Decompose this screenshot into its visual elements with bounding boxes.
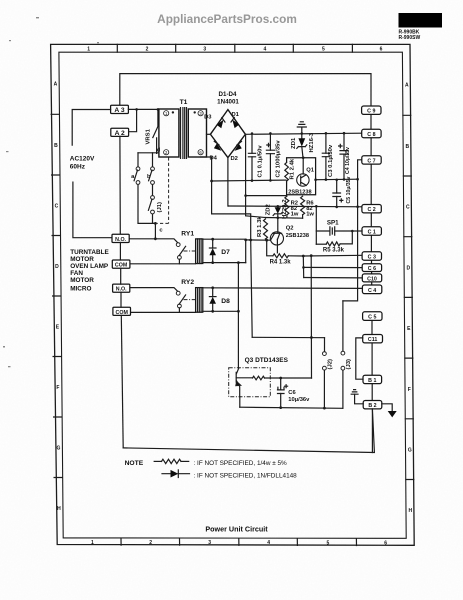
polarity plus C4 — [339, 144, 342, 147]
diode D2 — [234, 141, 241, 151]
svg-text:5: 5 — [322, 47, 325, 53]
node SP1 top — [315, 205, 318, 208]
svg-text:C 9: C 9 — [367, 109, 375, 115]
node ZD2 bottom — [277, 216, 280, 219]
svg-text:B: B — [54, 143, 58, 149]
linkage RY1 — [184, 250, 196, 252]
wire V1 bridge minus branch down — [212, 157, 251, 240]
node R4 C3 row — [302, 255, 305, 258]
svg-text:C4 10µ/35v: C4 10µ/35v — [345, 147, 351, 174]
svg-text:3: 3 — [208, 540, 211, 546]
wire left chain N.O.2 to COM2 — [120, 292, 122, 307]
label HZ16-3 — [309, 132, 315, 152]
outer border frame — [51, 44, 415, 545]
svg-text:HZ16-3: HZ16-3 — [309, 132, 315, 152]
label C1 value — [258, 145, 264, 178]
border zone numbers bottom — [91, 540, 387, 547]
polarity plus C6 — [285, 385, 288, 388]
wire RY2 top row to C4 — [203, 287, 362, 290]
node C6 gnd — [279, 406, 282, 409]
node gnd C2 row join — [356, 205, 359, 208]
svg-text:Q2: Q2 — [286, 226, 294, 232]
wire R4 to C3 terminal row — [288, 254, 362, 257]
node A2 jumper — [135, 108, 138, 111]
svg-text:6: 6 — [384, 540, 387, 546]
node D7 bottom — [211, 261, 214, 264]
ground arrow B2 right — [388, 411, 397, 417]
svg-text:2: 2 — [146, 47, 149, 53]
node D7 top — [211, 238, 214, 241]
label MICRO — [70, 286, 91, 293]
svg-text:G: G — [408, 448, 412, 454]
terminal C4 — [362, 285, 381, 294]
relay coil RY2 — [196, 288, 203, 313]
terminal C6 — [362, 264, 381, 272]
svg-text:1N4001: 1N4001 — [217, 98, 239, 105]
label D1 — [232, 112, 240, 118]
terminal A2 — [111, 128, 129, 137]
diode D7 — [209, 239, 216, 262]
load list label — [70, 249, 109, 284]
label a — [131, 174, 135, 180]
svg-text:RY2: RY2 — [181, 279, 194, 286]
wire left chain N.O.1 to COM1 — [119, 243, 121, 261]
rail A (DC minus mid rail) — [212, 179, 358, 181]
zener diode ZD2 — [273, 206, 282, 217]
model number black box — [399, 13, 443, 28]
svg-text:1: 1 — [87, 47, 90, 53]
svg-text:(J3): (J3) — [346, 359, 352, 370]
svg-text:D1: D1 — [232, 112, 240, 118]
label D4 — [210, 156, 218, 162]
terminal A3 — [111, 105, 129, 114]
svg-text:MOTOR: MOTOR — [70, 277, 94, 284]
label C3 value — [328, 144, 334, 177]
node C3 bottom — [325, 178, 328, 181]
node V-long top — [310, 254, 313, 257]
svg-text:4: 4 — [264, 47, 267, 53]
pin 1 primary top — [164, 111, 175, 117]
wire A3 row to transformer — [128, 108, 159, 110]
dashed jumper wire from pin 2 — [157, 157, 169, 223]
svg-text:5: 5 — [327, 540, 330, 546]
border zone letters right — [405, 83, 413, 515]
node relay return D8 row — [237, 310, 240, 313]
label C2 value — [276, 140, 282, 178]
label D8 — [221, 298, 230, 305]
wire bottom return to B2 — [123, 409, 374, 453]
svg-text:D8: D8 — [221, 298, 230, 305]
node C4 bottom — [343, 178, 346, 181]
svg-text:R3 1.3k: R3 1.3k — [257, 216, 263, 237]
svg-text:SP1: SP1 — [327, 220, 339, 227]
svg-text:C10: C10 — [367, 276, 377, 282]
svg-text:R5 3.3k: R5 3.3k — [323, 248, 345, 254]
switch a — [134, 153, 155, 224]
wire bridge bottom to C2 row — [227, 158, 229, 206]
svg-text:C2 1000µ/35v: C2 1000µ/35v — [276, 140, 282, 178]
node relay return tee — [237, 261, 240, 264]
wire COM1 row — [130, 263, 196, 265]
wire V-long vertical — [310, 256, 312, 379]
node C1 top — [251, 132, 254, 135]
node c junction — [154, 222, 157, 225]
label C6 — [288, 390, 296, 396]
wire N.O.1 row to switch — [129, 239, 178, 243]
svg-text:A: A — [54, 82, 58, 88]
svg-text:1: 1 — [91, 540, 94, 546]
svg-text:HZ29-2: HZ29-2 — [282, 199, 288, 219]
label AC120V 60Hz — [70, 156, 95, 171]
jumper switch J1 — [148, 196, 155, 224]
svg-text:F: F — [408, 387, 411, 393]
svg-text:C 2: C 2 — [367, 207, 375, 213]
svg-text:A 3: A 3 — [114, 107, 124, 114]
terminal C7 — [362, 156, 381, 165]
diode D3 — [217, 118, 226, 129]
node ZD2 top — [277, 205, 280, 208]
svg-text:2SB1238: 2SB1238 — [286, 233, 309, 239]
svg-text:COM: COM — [115, 263, 128, 269]
terminal COM 2 — [113, 307, 131, 316]
label C4 value — [345, 147, 351, 174]
svg-text:ZD1: ZD1 — [291, 137, 297, 149]
node C5 bottom — [335, 206, 338, 209]
node rail A at module edge — [314, 178, 317, 181]
label D3 — [204, 114, 212, 120]
capacitor C3 — [322, 133, 329, 179]
terminal COM 1 — [112, 260, 130, 269]
terminal B1 — [363, 375, 382, 384]
node C2 top — [269, 132, 272, 135]
header site watermark — [157, 12, 297, 26]
wire bottom gnd row — [240, 407, 343, 408]
relay coil RY1 — [196, 239, 203, 264]
wire U-loop horizontal 337 — [252, 336, 324, 338]
node Q2 row R4 — [265, 239, 268, 242]
node D8 bottom — [211, 310, 214, 313]
terminal C5 — [363, 312, 382, 321]
label b — [147, 174, 151, 180]
wire R4 branch down — [267, 240, 273, 256]
wire d row under primary — [138, 152, 159, 154]
svg-text:COM: COM — [116, 310, 129, 316]
right terminal column connector lines — [371, 114, 372, 453]
svg-text:C3 0.1µ/50v: C3 0.1µ/50v — [328, 144, 334, 177]
wire left chain COM1 to N.O.2 — [120, 268, 122, 284]
wire left chain COM2 to bottom — [121, 315, 123, 448]
bridge rectifier D1-D4 label — [217, 91, 239, 105]
node V3 branch — [244, 194, 247, 197]
svg-text:6: 6 — [380, 47, 383, 53]
svg-text:C6: C6 — [288, 390, 296, 396]
terminal C11 — [363, 335, 383, 344]
resistor R1 — [285, 163, 289, 182]
wire VRS1 bottom to d row (stub) — [156, 152, 158, 155]
svg-text:A: A — [405, 83, 409, 89]
svg-text:C 1: C 1 — [368, 230, 376, 236]
svg-text:C 7: C 7 — [367, 158, 375, 164]
svg-text:F: F — [56, 385, 59, 391]
transformer T1 secondary winding — [188, 109, 206, 157]
terminal C8 — [362, 129, 381, 138]
svg-text:D1-D4: D1-D4 — [219, 91, 237, 98]
border tick marks right — [403, 115, 414, 479]
svg-text:3: 3 — [203, 47, 206, 53]
svg-text:VRS1: VRS1 — [146, 128, 152, 144]
wire U-loop V2 down — [251, 240, 253, 337]
wire RY1 bottom row — [203, 262, 246, 264]
label R4 1.3k — [270, 259, 292, 265]
label ZD2 — [265, 203, 271, 215]
terminal C2 — [362, 205, 381, 214]
node U-loop V-long tee — [310, 336, 313, 339]
varistor VRS1 — [153, 109, 159, 152]
wire relay return to Q3 — [237, 263, 239, 368]
wire bridge plus to C8 rail — [245, 133, 361, 134]
node rail A end on V1 — [210, 180, 213, 183]
wire A2 jumper from A3 row — [129, 109, 137, 131]
label VRS1 — [146, 128, 152, 144]
note diode symbol — [162, 470, 190, 478]
label c — [159, 228, 163, 234]
wire secondary bottom stub to V1 — [201, 156, 212, 158]
relay RY1 switch — [176, 243, 185, 264]
svg-text:Q3 DTD143ES: Q3 DTD143ES — [245, 357, 289, 364]
zener diode ZD1 — [297, 134, 307, 158]
label R1 2.4k — [290, 158, 296, 179]
border zone letters left — [54, 82, 62, 513]
svg-text:B 1: B 1 — [368, 378, 376, 384]
title: Power Unit Circuit — [205, 525, 268, 534]
svg-text:10µ/36v: 10µ/36v — [288, 397, 310, 403]
terminal B2 — [363, 401, 382, 410]
svg-text:(J1): (J1) — [157, 202, 163, 213]
svg-text:R4 1.3k: R4 1.3k — [270, 259, 292, 265]
svg-text:b: b — [147, 174, 151, 180]
terminal C3 — [362, 252, 381, 261]
label D2 — [231, 156, 238, 162]
svg-text:MICRO: MICRO — [70, 286, 91, 293]
node C4 top — [343, 132, 346, 135]
terminal N.O. 1 — [112, 234, 129, 243]
node Q2 row left — [244, 239, 247, 242]
wire RY1 top row to corner — [203, 239, 246, 262]
terminal N.O. 2 — [113, 284, 130, 293]
wire Q3 emitter to gnd row — [239, 397, 241, 407]
terminal C1 — [362, 227, 381, 236]
svg-text:D7: D7 — [221, 249, 230, 256]
wire C1 terminal row — [352, 230, 362, 232]
digital transistor Q3 module box — [229, 368, 271, 397]
resistor R5 bottom branch — [316, 231, 352, 246]
svg-text:Q1: Q1 — [306, 168, 315, 174]
label SP1 — [327, 220, 339, 227]
label C5 value — [346, 176, 352, 203]
wire RY2 bottom row — [203, 310, 239, 312]
diode D4 — [214, 141, 221, 151]
note text — [125, 460, 298, 479]
node C6 top — [279, 377, 282, 380]
wire C6 row — [304, 266, 362, 268]
label C6 value — [288, 397, 310, 403]
svg-text:: IF NOT SPECIFIED, 1/4w ± 5%: : IF NOT SPECIFIED, 1/4w ± 5% — [194, 460, 288, 467]
polarity plus C2 — [267, 143, 270, 146]
svg-text:MOTOR: MOTOR — [70, 256, 94, 263]
label Q3 DTD143ES — [245, 357, 289, 364]
wire c junction down to N.O. row — [154, 223, 156, 238]
label Q2 — [286, 226, 294, 232]
node row base wire — [265, 217, 302, 220]
resistor R2 — [285, 196, 289, 217]
node C3 top — [325, 132, 328, 135]
svg-text:: IF NOT SPECIFIED, 1N/FDLL41: : IF NOT SPECIFIED, 1N/FDLL4148 — [194, 472, 298, 479]
svg-text:D: D — [55, 264, 59, 270]
svg-text:B: B — [405, 144, 409, 150]
svg-text:AC120V: AC120V — [70, 156, 95, 163]
border tick marks top — [117, 44, 352, 52]
node C2 bottom — [269, 179, 272, 182]
stray scan specks left margin — [3, 17, 99, 367]
svg-text:1w: 1w — [306, 212, 314, 218]
transistor Q2 — [270, 218, 283, 253]
wire ZD1 into module — [302, 158, 304, 174]
linkage RY2 — [184, 299, 196, 301]
svg-text:FAN: FAN — [70, 270, 83, 277]
node gnd rail A join — [356, 178, 359, 181]
regulator module box Q1 — [287, 158, 316, 195]
border tick marks left — [51, 114, 62, 477]
svg-text:R1 2.4k: R1 2.4k — [290, 158, 296, 179]
node D8 top — [211, 286, 214, 289]
label R2 82 1w — [291, 200, 299, 217]
inner border frame — [59, 52, 406, 538]
svg-text:4: 4 — [267, 540, 270, 546]
node ZD1 top — [301, 132, 304, 135]
node C5 top — [335, 179, 338, 182]
surge absorber SP1 loop left rail — [315, 206, 317, 244]
label R3 1.3k — [257, 216, 263, 237]
capacitor C2 — [266, 133, 274, 180]
label D7 — [221, 249, 230, 256]
wire A2 down to terminal chain — [119, 136, 121, 234]
svg-text:(J2): (J2) — [328, 359, 334, 370]
svg-text:OVEN LAMP: OVEN LAMP — [70, 263, 109, 270]
pin 2 primary bottom — [164, 150, 169, 156]
svg-text:C 6: C 6 — [368, 266, 376, 272]
wire B2 right ground — [382, 404, 392, 411]
terminal C9 — [362, 106, 381, 115]
border zone numbers top — [87, 47, 382, 53]
svg-text:C 3: C 3 — [368, 255, 376, 261]
svg-text:H: H — [57, 506, 61, 512]
capacitor C4 — [340, 133, 348, 179]
wire V3 branch to module — [246, 195, 287, 197]
svg-text:C 8: C 8 — [367, 132, 375, 138]
svg-text:Power Unit Circuit: Power Unit Circuit — [205, 525, 268, 534]
svg-text:2SB1238: 2SB1238 — [288, 189, 311, 195]
label ZD1 — [291, 137, 297, 149]
wire B2 left chassis — [355, 394, 364, 404]
svg-text:TURNTABLE: TURNTABLE — [70, 249, 109, 256]
transformer T1 label — [180, 99, 188, 106]
svg-text:C11: C11 — [368, 337, 377, 343]
capacitor C5 — [333, 180, 341, 207]
wire C2 row — [228, 205, 364, 208]
wire V3 bridge output drop — [246, 134, 266, 217]
label HZ29-2 — [282, 199, 288, 219]
resistor R4 — [273, 254, 288, 258]
svg-text:A 2: A 2 — [115, 130, 125, 137]
node VRS1 top — [157, 108, 160, 111]
node c on N.O. row — [154, 237, 157, 240]
note resistor symbol — [154, 459, 189, 463]
label d — [157, 148, 161, 154]
wire A3 left to AC stub — [72, 110, 110, 146]
svg-text:ZD2: ZD2 — [265, 203, 271, 215]
label (J3) — [346, 359, 352, 370]
transistor Q3 — [236, 368, 253, 397]
relay RY2 label — [181, 279, 194, 286]
svg-text:D: D — [406, 265, 410, 271]
svg-text:D2: D2 — [231, 156, 238, 162]
wire N.O.2 row to switch — [130, 288, 178, 292]
capacitor symbol SP1 — [316, 227, 352, 235]
svg-text:2: 2 — [149, 540, 152, 546]
pin 3 secondary top — [194, 111, 204, 117]
svg-text:1w: 1w — [291, 212, 299, 218]
svg-text:G: G — [56, 446, 60, 452]
label Q2 part 2SB1238 — [286, 233, 309, 239]
label (J2) — [328, 359, 334, 370]
relay RY2 switch — [176, 291, 185, 312]
svg-text:D3: D3 — [204, 114, 212, 120]
border tick marks bottom — [121, 539, 357, 546]
capacitor C1 — [248, 134, 255, 181]
label Q1 part 2SB1238 — [288, 189, 311, 195]
svg-text:H: H — [408, 508, 412, 514]
svg-text:C: C — [406, 205, 410, 211]
model numbers text — [399, 29, 421, 41]
node ZD1 module top — [302, 156, 305, 159]
wire AC stub 2 to N.O. terminal — [73, 182, 112, 238]
resistor R6 — [301, 196, 305, 218]
chassis symbol above rail — [297, 122, 306, 134]
wire COM2 row — [131, 311, 196, 313]
svg-text:60Hz: 60Hz — [70, 163, 86, 170]
label Q1 — [306, 168, 315, 174]
svg-text:C5 10µ/35v: C5 10µ/35v — [346, 176, 352, 203]
wire C6 C10 drop — [302, 256, 304, 278]
terminal C10 — [362, 274, 381, 282]
bracket C11 to B1 — [356, 338, 363, 379]
jumper J2 — [323, 338, 327, 408]
svg-text:T1: T1 — [180, 99, 188, 106]
svg-text:C 4: C 4 — [368, 288, 376, 294]
wire C7 gnd vertical — [343, 160, 362, 301]
bridge rectifier diamond — [210, 110, 245, 158]
node Q2 row V2 — [249, 239, 252, 242]
diode D1 — [231, 117, 239, 128]
diode D8 — [209, 288, 216, 312]
transformer T1 primary winding — [159, 109, 179, 157]
svg-text:C: C — [55, 204, 59, 210]
svg-text:C1 0.1µ/50v: C1 0.1µ/50v — [258, 145, 264, 178]
transformer T1 core — [181, 108, 187, 159]
resistor R3 — [264, 219, 268, 240]
wire C10 row — [304, 277, 362, 279]
chassis symbol B2 left — [351, 390, 358, 395]
